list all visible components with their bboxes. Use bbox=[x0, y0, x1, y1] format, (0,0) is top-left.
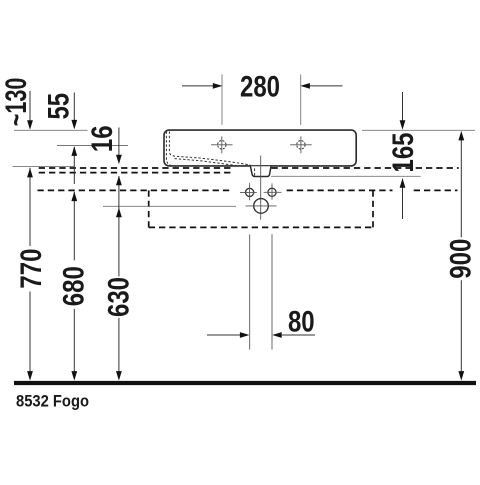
basin underside extension line bbox=[13, 166, 75, 168]
tap deck extension line bbox=[57, 145, 128, 147]
dim 16 / 630 shared line bbox=[116, 176, 122, 381]
waste centre extension line bbox=[103, 205, 236, 207]
tap hole left bbox=[211, 136, 233, 153]
dim 55 line upper bbox=[71, 93, 77, 130]
console frame left dashed edge bbox=[148, 190, 150, 227]
rim extension line right bbox=[362, 129, 475, 131]
dim 80 arrow left bbox=[207, 332, 249, 338]
rim extension line bbox=[14, 129, 88, 131]
basin inner bowl hidden line inner bbox=[169, 132, 250, 166]
dim 16 line bbox=[116, 128, 122, 165]
svg-text:280: 280 bbox=[240, 69, 280, 103]
dim 280 extension right bbox=[300, 74, 302, 125]
outlet boss bbox=[250, 166, 271, 176]
svg-text:8532 Fogo: 8532 Fogo bbox=[16, 393, 89, 411]
floor line bbox=[14, 381, 476, 385]
supply hole left bbox=[240, 183, 257, 200]
dim 280 arrow right bbox=[300, 83, 342, 89]
svg-text:80: 80 bbox=[288, 304, 315, 338]
basin inner bowl hidden line lower slope bbox=[175, 159, 245, 167]
console top dashed line bbox=[39, 167, 459, 169]
dim 165 line upper bbox=[400, 92, 406, 130]
supply hole right bbox=[264, 183, 282, 199]
dim 165 line lower bbox=[400, 178, 406, 219]
basin outline bbox=[164, 130, 356, 166]
supply pipe right bbox=[271, 234, 273, 349]
outlet boss hidden edge bbox=[254, 168, 256, 176]
dim 80 arrow right bbox=[272, 332, 315, 338]
outlet boss extension line bbox=[271, 175, 421, 177]
basin inner bowl hidden line outer bbox=[166, 132, 177, 167]
svg-text:55: 55 bbox=[41, 93, 75, 120]
console frame right dashed edge bbox=[372, 190, 374, 227]
dim ~130 / 770 shared line bbox=[27, 168, 33, 381]
console frame bottom dashed line bbox=[149, 226, 373, 228]
svg-text:900: 900 bbox=[443, 239, 477, 279]
dim 55 / 680 shared line bbox=[71, 146, 77, 380]
svg-text:680: 680 bbox=[56, 266, 90, 306]
supply pipe left bbox=[249, 234, 251, 349]
console apron dashed line bbox=[38, 189, 458, 191]
waste outlet circle bbox=[246, 199, 277, 214]
svg-text:16: 16 bbox=[84, 125, 118, 152]
drain centreline bbox=[260, 156, 262, 220]
console panel bottom dashed line bbox=[39, 172, 233, 174]
svg-text:~130: ~130 bbox=[0, 78, 33, 127]
dim ~130 line upper bbox=[27, 91, 33, 130]
dim 900 line bbox=[458, 131, 464, 381]
svg-text:770: 770 bbox=[13, 249, 47, 289]
svg-text:630: 630 bbox=[101, 277, 135, 317]
tap hole right bbox=[290, 136, 312, 153]
svg-text:165: 165 bbox=[385, 132, 419, 172]
dim 280 extension left bbox=[221, 74, 223, 125]
dim 280 arrow left bbox=[182, 83, 222, 89]
